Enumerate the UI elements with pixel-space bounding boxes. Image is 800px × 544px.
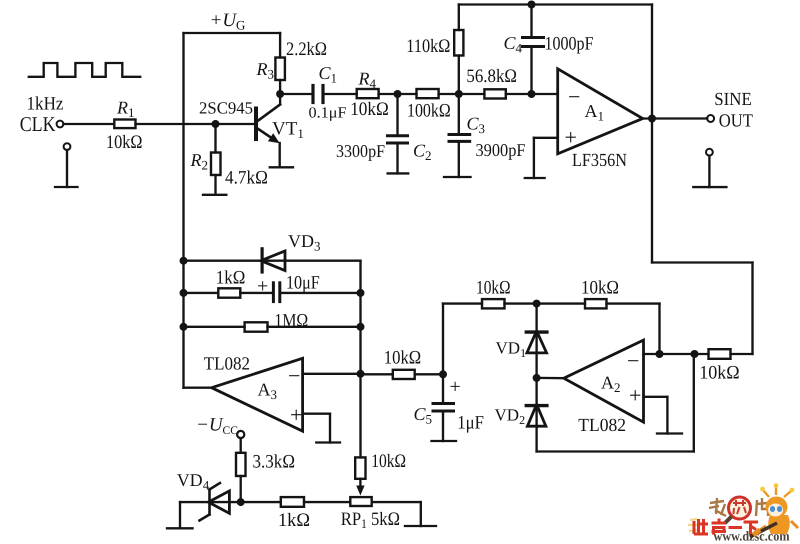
- svg-text:+: +: [257, 276, 268, 298]
- svg-text:R4: R4: [358, 69, 377, 92]
- svg-text:VT1: VT1: [272, 119, 304, 142]
- svg-text:A1: A1: [585, 101, 605, 124]
- svg-text:−: −: [288, 363, 300, 388]
- svg-text:1μF: 1μF: [457, 413, 484, 434]
- svg-text:56.8kΩ: 56.8kΩ: [466, 66, 517, 87]
- svg-text:1kΩ: 1kΩ: [216, 268, 246, 289]
- svg-text:10kΩ: 10kΩ: [371, 451, 406, 472]
- svg-text:OUT: OUT: [719, 111, 753, 131]
- svg-text:+: +: [450, 376, 461, 398]
- svg-text:+: +: [565, 125, 577, 150]
- svg-text:110kΩ: 110kΩ: [406, 36, 450, 57]
- svg-text:R3: R3: [256, 59, 275, 82]
- svg-text:SINE: SINE: [714, 90, 752, 110]
- svg-text:10kΩ: 10kΩ: [350, 99, 389, 120]
- svg-text:VD1: VD1: [496, 339, 527, 361]
- svg-text:10kΩ: 10kΩ: [581, 278, 619, 299]
- svg-text:10kΩ: 10kΩ: [106, 132, 142, 153]
- svg-text:VD4: VD4: [177, 470, 210, 493]
- svg-text:+UG: +UG: [210, 10, 246, 33]
- svg-text:C2: C2: [413, 141, 432, 164]
- svg-text:+: +: [290, 402, 302, 427]
- svg-text:A2: A2: [601, 373, 621, 396]
- svg-text:C1: C1: [319, 63, 338, 86]
- svg-text:+: +: [629, 383, 641, 408]
- svg-text:1MΩ: 1MΩ: [274, 311, 308, 332]
- svg-text:C4: C4: [504, 33, 523, 56]
- svg-text:2SC945: 2SC945: [199, 99, 253, 118]
- svg-text:10kΩ: 10kΩ: [384, 348, 421, 369]
- svg-text:R1: R1: [116, 98, 135, 121]
- svg-text:100kΩ: 100kΩ: [407, 101, 451, 122]
- svg-text:CLK: CLK: [20, 112, 56, 136]
- svg-text:10kΩ: 10kΩ: [476, 278, 511, 299]
- svg-text:10kΩ: 10kΩ: [699, 363, 739, 384]
- svg-text:3300pF: 3300pF: [336, 141, 385, 161]
- svg-text:2.2kΩ: 2.2kΩ: [286, 39, 327, 60]
- svg-text:A3: A3: [258, 380, 278, 403]
- svg-text:C3: C3: [467, 114, 486, 137]
- svg-text:1kΩ: 1kΩ: [278, 510, 310, 531]
- svg-text:TL082: TL082: [204, 354, 250, 374]
- svg-text:3.3kΩ: 3.3kΩ: [253, 452, 296, 473]
- svg-text:VD2: VD2: [495, 406, 526, 428]
- svg-text:R2: R2: [190, 150, 209, 173]
- svg-text:RP1 5kΩ: RP1 5kΩ: [341, 509, 400, 531]
- svg-text:1000pF: 1000pF: [545, 34, 594, 55]
- svg-text:3900pF: 3900pF: [476, 140, 526, 160]
- svg-text:10μF: 10μF: [286, 273, 320, 294]
- svg-text:−: −: [627, 348, 639, 373]
- svg-text:LF356N: LF356N: [572, 151, 627, 171]
- svg-text:TL082: TL082: [578, 416, 626, 436]
- svg-text:−UCC: −UCC: [196, 415, 238, 438]
- svg-text:0.1μF: 0.1μF: [309, 105, 347, 122]
- svg-text:−: −: [568, 84, 580, 109]
- svg-text:VD3: VD3: [288, 231, 321, 254]
- svg-text:4.7kΩ: 4.7kΩ: [225, 168, 268, 189]
- svg-text:C5: C5: [414, 404, 433, 427]
